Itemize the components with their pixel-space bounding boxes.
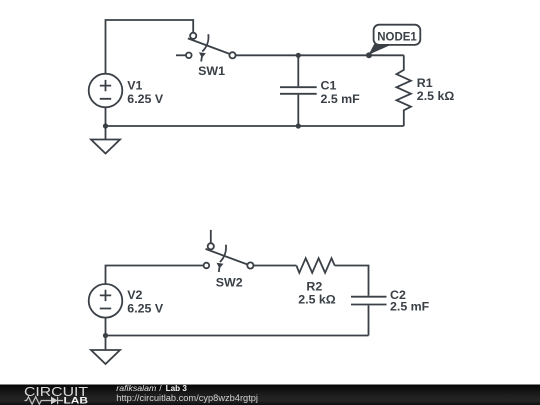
svg-text:R1: R1 [417, 76, 433, 90]
svg-text:2.5 mF: 2.5 mF [321, 92, 361, 106]
resistor R1 [397, 55, 411, 126]
voltage source V2 [89, 284, 123, 318]
ground GND1 [91, 126, 120, 154]
wire bottom rail top circuit [106, 125, 404, 127]
svg-text:6.25 V: 6.25 V [127, 92, 164, 106]
svg-text:rafiksalam: rafiksalam [116, 383, 156, 393]
svg-text:SW2: SW2 [216, 275, 243, 289]
svg-text:NODE1: NODE1 [377, 29, 417, 43]
wire bottom rail bottom circuit [106, 335, 369, 337]
svg-text:SW1: SW1 [198, 64, 225, 78]
wire V1 bottom [105, 107, 107, 126]
flag NODE1 [369, 25, 421, 55]
label V1 value [127, 79, 164, 106]
node junction V1-ground [103, 123, 108, 128]
wire SW1 to R1 [236, 54, 404, 56]
svg-text:2.5 kΩ: 2.5 kΩ [417, 89, 455, 103]
label R2 value [298, 280, 336, 307]
wire V2 top to SW2 [106, 266, 204, 285]
svg-text:http://circuitlab.com/cyp8wzb4: http://circuitlab.com/cyp8wzb4rgtpj [116, 393, 258, 403]
switch SW2 [204, 230, 254, 272]
svg-text:2.5 mF: 2.5 mF [390, 300, 430, 314]
node junction C1 top [296, 53, 301, 58]
svg-text:V1: V1 [127, 79, 142, 93]
label C2 value [390, 288, 430, 314]
wire V2 bottom [105, 318, 107, 336]
ground GND2 [91, 336, 120, 365]
svg-text:LAB: LAB [64, 396, 89, 405]
voltage source V1 [89, 74, 123, 108]
switch SW1 [176, 33, 236, 62]
capacitor C2 [351, 297, 387, 336]
node junction C1 bottom [296, 123, 301, 128]
wire R2 to C2 [335, 266, 369, 296]
svg-text:R2: R2 [306, 280, 322, 294]
node NODE1 dot [366, 52, 372, 58]
logo CircuitLab [24, 385, 88, 405]
resistor R2 [296, 258, 334, 273]
svg-text:2.5 kΩ: 2.5 kΩ [298, 293, 336, 307]
svg-text:6.25 V: 6.25 V [127, 302, 164, 316]
wire SW2 to R2 [254, 265, 297, 267]
node junction V2-ground [103, 333, 108, 338]
svg-text:V2: V2 [127, 288, 142, 302]
label V2 value [127, 288, 164, 316]
svg-text:C1: C1 [321, 79, 337, 93]
svg-text:Lab 3: Lab 3 [166, 383, 188, 393]
capacitor C1 [280, 55, 317, 126]
label R1 value [417, 76, 455, 103]
label C1 value [321, 79, 361, 106]
wire V1 top to SW1 [106, 20, 194, 74]
footer bar [0, 385, 540, 405]
